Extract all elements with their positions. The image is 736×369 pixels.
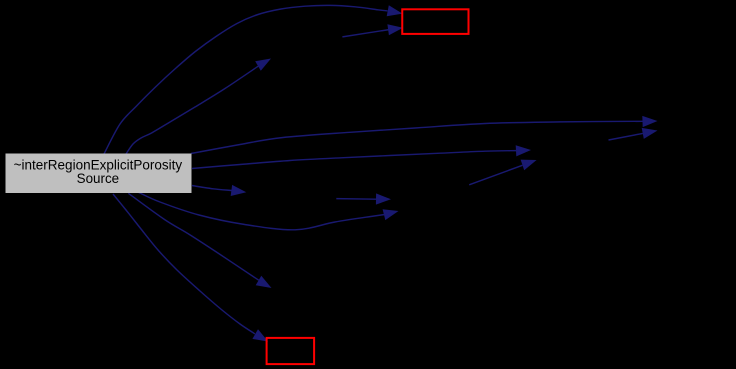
edge E9 curve to bottom red node	[113, 194, 268, 342]
edge E7 dip curve to mid arrow	[139, 192, 399, 229]
edge E4 to mid-right	[192, 145, 531, 168]
edge E3 diagonal up-right	[126, 59, 271, 155]
edge E5 long arc to far right	[191, 116, 658, 154]
edge F3 floating horizontal	[336, 193, 391, 204]
edge E8 diagonal down-right	[128, 193, 271, 288]
node ~interRegionExplicitPorositySource (grey box)	[6, 154, 192, 194]
edge E1 to top red node	[104, 5, 403, 154]
edge F2 floating diagonal mid	[469, 160, 536, 185]
svg-text:Source: Source	[77, 171, 119, 186]
edge F4 floating to far right	[609, 128, 658, 140]
node: bottom red-outlined box	[267, 338, 315, 364]
node: top red-outlined box	[402, 9, 468, 34]
edge E6 small arrow near node	[192, 185, 246, 196]
edge E2 floating into top red node	[342, 24, 403, 37]
